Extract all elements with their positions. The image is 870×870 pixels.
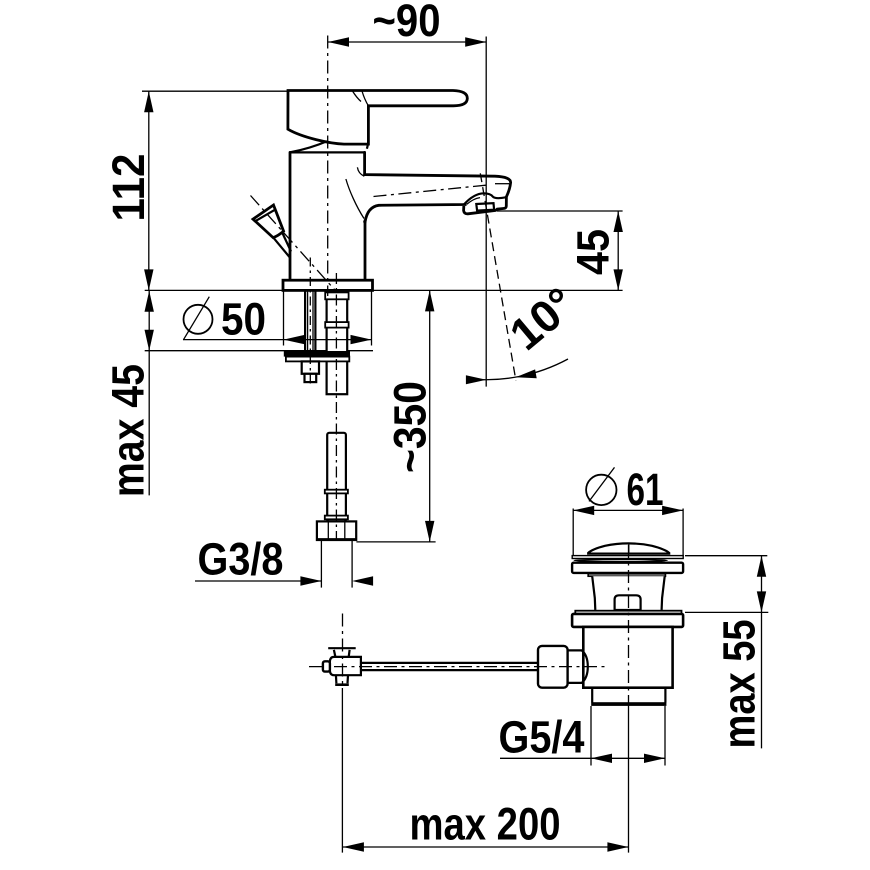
tee block xyxy=(330,657,361,675)
knob face line xyxy=(254,209,275,221)
svg-text:~90: ~90 xyxy=(373,0,441,46)
gasket washer (black) xyxy=(284,351,350,357)
stud tip xyxy=(305,374,317,382)
plug rim plate xyxy=(572,556,683,559)
plug disc xyxy=(572,563,683,573)
arc arrow right xyxy=(516,369,537,378)
dim G5/4 xyxy=(499,706,666,766)
faucet body xyxy=(289,152,365,280)
handle skirt right edge xyxy=(367,144,368,149)
spout with aerator housing xyxy=(365,175,511,222)
dome seam xyxy=(628,544,630,553)
tailpiece tube upper xyxy=(325,291,348,394)
dim diameter 50 xyxy=(183,291,372,346)
deck top line xyxy=(145,289,623,291)
stud centerline xyxy=(309,258,311,386)
dim G3/8 xyxy=(195,534,373,588)
handle lever xyxy=(288,91,467,145)
knob axis centerline xyxy=(251,196,337,292)
stream line 10deg xyxy=(480,173,516,380)
G3/8 hex nut xyxy=(317,521,356,540)
thread band (black) xyxy=(591,702,666,706)
svg-text:~350: ~350 xyxy=(384,381,435,473)
svg-text:112: 112 xyxy=(103,154,154,222)
rod axis centerline xyxy=(309,666,605,668)
drain pull knob stem xyxy=(274,238,290,258)
tube centerline xyxy=(335,273,337,540)
aerator bump curve xyxy=(464,193,506,204)
dim max 45 xyxy=(103,291,154,497)
dim max 200 xyxy=(342,688,628,853)
housing lip xyxy=(588,574,665,576)
plug guide boss xyxy=(615,595,641,610)
base flange xyxy=(283,280,373,290)
faucet centerline xyxy=(327,36,329,297)
spout root hook curve xyxy=(357,167,364,176)
drain centerline xyxy=(628,545,630,706)
aerator inner curve xyxy=(467,198,480,205)
upper housing xyxy=(592,576,665,610)
rod coupling nut xyxy=(538,646,568,688)
dim max 55 xyxy=(685,556,768,749)
drain plug dome xyxy=(588,543,669,553)
threaded stud xyxy=(305,291,315,351)
hose lower tube xyxy=(325,433,348,522)
arc arrow left xyxy=(466,375,486,384)
angle arc 10deg xyxy=(466,359,568,380)
drain flange lip xyxy=(575,611,681,614)
drain pull knob xyxy=(253,205,284,238)
dim 45 right xyxy=(497,211,623,290)
svg-text:50: 50 xyxy=(221,294,266,345)
deck bottom line xyxy=(145,350,373,352)
spout axis centerline xyxy=(374,185,491,197)
aerator insert xyxy=(476,203,494,210)
svg-text:max 200: max 200 xyxy=(410,799,561,850)
drain tailpipe xyxy=(591,688,593,703)
tee bottom neck xyxy=(335,675,338,683)
svg-text:max 55: max 55 xyxy=(714,620,765,749)
drain centerline extension to max200 xyxy=(628,706,630,853)
pull rod xyxy=(361,662,538,664)
dim ~350 xyxy=(356,290,435,542)
tee top cap xyxy=(328,647,356,649)
dim ~90 xyxy=(328,0,486,387)
tee centerline xyxy=(342,614,344,688)
body dome wedge curve xyxy=(290,141,327,152)
spout root crease curve xyxy=(346,179,364,219)
dim diameter 61 xyxy=(573,464,683,556)
drain body xyxy=(583,627,672,688)
handle junction curves xyxy=(362,91,368,106)
tee left knob xyxy=(323,661,330,671)
svg-text:G5/4: G5/4 xyxy=(499,712,585,763)
svg-text:G3/8: G3/8 xyxy=(198,534,284,585)
svg-text:45: 45 xyxy=(568,229,619,275)
tee bottom cap xyxy=(335,683,349,686)
dim 112 xyxy=(103,91,288,290)
horseshoe plate xyxy=(286,357,349,362)
svg-text:61: 61 xyxy=(627,464,664,515)
tee neck xyxy=(334,650,336,657)
rod tee fitting xyxy=(323,614,361,688)
rod coupling neck xyxy=(567,650,588,683)
spout tip inner line xyxy=(495,183,509,185)
seal washer edge xyxy=(574,559,667,561)
svg-text:max 45: max 45 xyxy=(103,364,154,497)
stud nut xyxy=(302,361,319,373)
drain flange xyxy=(572,614,683,627)
